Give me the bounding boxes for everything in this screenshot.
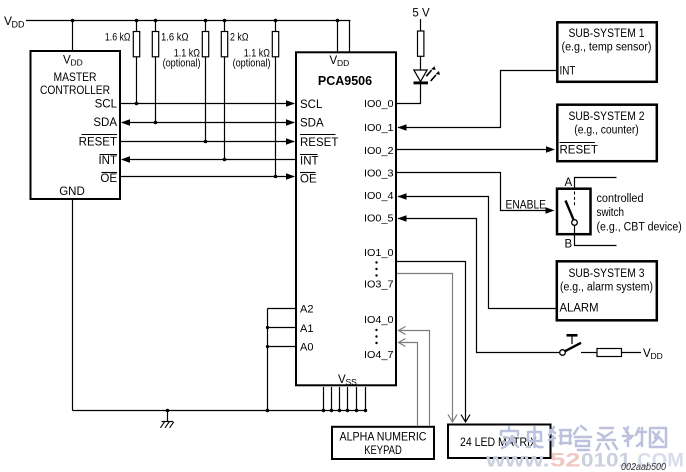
- svg-text:www.: www.: [485, 450, 550, 472]
- pin label INT with overline (master): [98, 155, 117, 167]
- sub-system 1 box: [557, 22, 657, 82]
- junction dot SCL / R1: [135, 102, 139, 106]
- arrow SDA into master: [121, 119, 130, 126]
- switch contact circle: [572, 220, 578, 226]
- junction dot A0 stub: [266, 345, 269, 348]
- wire keypad to IO4_7 (gray): [399, 343, 418, 426]
- svg-text:GND: GND: [59, 186, 85, 198]
- wire ground rail: [73, 410, 366, 412]
- svg-text:002aab500: 002aab500: [621, 462, 666, 472]
- wire IO3_7 to 24 LED matrix (gray): [397, 274, 453, 422]
- wire INT sub-system1 to IO0_1: [398, 71, 556, 128]
- svg-text:RESET: RESET: [79, 137, 117, 149]
- label SUB-SYSTEM 2: [569, 111, 645, 137]
- svg-text:SUB-SYSTEM 3: SUB-SYSTEM 3: [569, 268, 645, 280]
- wire ALARM sub-system3 to IO0_4: [398, 197, 556, 309]
- svg-text:5 V: 5 V: [412, 8, 430, 20]
- value label 1.1 kohm (optional) (OE): [233, 48, 271, 70]
- svg-text:2 kΩ: 2 kΩ: [230, 32, 249, 44]
- master controller box: [31, 51, 121, 199]
- svg-text:A: A: [565, 177, 573, 189]
- 24 LED matrix box: [448, 425, 551, 459]
- arrow open down into LED matrix (black): [461, 415, 470, 423]
- arrow open down into LED matrix (gray): [448, 415, 457, 423]
- wire A terminal: [575, 178, 617, 188]
- pin label INT with overline (PCA9506): [300, 155, 319, 168]
- svg-text:(e.g., alarm system): (e.g., alarm system): [560, 282, 653, 294]
- wire master GND down: [72, 200, 74, 411]
- label SUB-SYSTEM 3: [560, 268, 653, 294]
- svg-text:IO0_1: IO0_1: [364, 123, 394, 134]
- wire IO0_5 to momentary switch: [398, 219, 559, 353]
- pin label RESET with overline (sub-system 2): [560, 143, 598, 157]
- junction dot VDD rail / R2: [154, 19, 158, 23]
- ellipsis dots IO1..IO3: [375, 261, 377, 276]
- label ALPHA NUMERIC KEYPAD: [340, 432, 427, 458]
- resistor 2 kohm INT pull-up: [221, 21, 227, 160]
- arrow RESET into PCA9506: [286, 138, 295, 145]
- svg-text:SUB-SYSTEM 1: SUB-SYSTEM 1: [569, 28, 645, 40]
- wire SCL master to PCA9506: [121, 103, 294, 105]
- arrow open left into IO4_7 (gray): [399, 339, 406, 347]
- sub-system 2 box: [557, 105, 657, 162]
- resistor 1.6 kohm SCL pull-up: [133, 21, 139, 104]
- wire keypad to IO4_0 (gray): [399, 331, 430, 426]
- svg-text:IO3_7: IO3_7: [364, 280, 394, 291]
- junction dot VDD rail / PCA9506 VDD pin: [336, 19, 340, 23]
- svg-text:CONTROLLER: CONTROLLER: [40, 85, 110, 97]
- svg-text:SCL: SCL: [300, 99, 323, 111]
- watermark url www.520101.com: [485, 450, 684, 472]
- svg-text:A1: A1: [300, 323, 313, 335]
- resistor 1.1 kohm optional OE pull-up: [272, 21, 278, 177]
- svg-text:RESET: RESET: [560, 145, 598, 157]
- svg-text:SDA: SDA: [300, 118, 324, 130]
- junction dot OE / R5: [274, 175, 278, 179]
- label SUB-SYSTEM 1: [562, 28, 652, 54]
- arrow ENABLE into switch box: [546, 207, 555, 214]
- arrow into IO0_4: [398, 193, 407, 200]
- PCA9506 box: [296, 52, 396, 385]
- node VDD label right: [643, 348, 663, 361]
- arrow into IO0_1: [398, 124, 407, 131]
- arrow INT into master: [121, 156, 130, 163]
- wire 5V to resistor: [420, 19, 422, 31]
- wire VDD top rail: [26, 20, 351, 22]
- wire IO0_3 to ENABLE of controlled switch: [397, 173, 552, 211]
- svg-text:B: B: [565, 239, 573, 251]
- arrow OE into PCA9506: [286, 173, 295, 180]
- svg-text:IO0_0: IO0_0: [364, 99, 394, 110]
- wire OE master to PCA9506: [121, 176, 294, 178]
- svg-text:IO0_2: IO0_2: [364, 146, 394, 157]
- label MASTER CONTROLLER: [40, 72, 110, 97]
- svg-text:OE: OE: [100, 173, 117, 185]
- junction dot VDD rail / R1: [135, 19, 139, 23]
- pin label OE with overline (master): [100, 173, 117, 186]
- resistor pull-up at momentary switch: [597, 349, 622, 357]
- controlled switch box: [557, 189, 591, 235]
- svg-text:52: 52: [550, 450, 581, 472]
- pin stub A2: [268, 308, 296, 310]
- wire IO1_0 to 24 LED matrix (black): [397, 262, 466, 422]
- wire B terminal: [575, 236, 617, 246]
- svg-text:(e.g., counter): (e.g., counter): [574, 125, 639, 137]
- svg-text:IO4_0: IO4_0: [364, 315, 394, 326]
- svg-text:(e.g., CBT device): (e.g., CBT device): [597, 222, 682, 234]
- svg-text:SDA: SDA: [93, 117, 117, 129]
- label VDD pin of master controller: [63, 55, 83, 68]
- svg-text:INT: INT: [98, 155, 117, 167]
- junction dot SDA / R2: [154, 121, 158, 125]
- watermark chinese characters: [501, 426, 666, 450]
- label controlled switch (e.g., CBT device): [597, 193, 682, 234]
- momentary switch to VDD: [560, 335, 581, 355]
- wire VDD rail down to PCA9506 VDD pin 1: [337, 21, 339, 52]
- pin stub A0: [268, 346, 296, 348]
- svg-text:PCA9506: PCA9506: [318, 74, 372, 88]
- svg-text:DD: DD: [651, 351, 663, 361]
- switch lever: [566, 201, 574, 220]
- svg-text:(e.g., temp sensor): (e.g., temp sensor): [562, 42, 652, 54]
- svg-text:1.6 kΩ: 1.6 kΩ: [105, 32, 131, 44]
- value label 1.1 kohm (optional) (RESET): [163, 48, 201, 70]
- switch contact dashed control line: [574, 192, 576, 207]
- wire resistor to LED: [420, 56, 422, 70]
- svg-text:ENABLE: ENABLE: [506, 200, 547, 212]
- svg-text:SS: SS: [346, 377, 358, 387]
- junction dot A1 stub: [266, 326, 269, 329]
- junction dot address/ground: [266, 409, 270, 413]
- svg-text:IO1_0: IO1_0: [364, 248, 394, 259]
- svg-text:DD: DD: [71, 58, 83, 68]
- wire LED cathode to IO0_0: [397, 84, 421, 104]
- ground symbol: [160, 409, 173, 428]
- svg-text:DD: DD: [12, 20, 25, 30]
- svg-text:INT: INT: [560, 66, 576, 78]
- wire IO0_2 to sub-system2 RESET: [397, 149, 553, 151]
- junction dot INT / R4: [223, 158, 227, 162]
- svg-text:24 LED MATRIX: 24 LED MATRIX: [460, 437, 537, 449]
- svg-text:A2: A2: [300, 304, 313, 316]
- svg-text:(optional): (optional): [163, 58, 201, 70]
- switch contact stub to B: [574, 225, 576, 234]
- wire switch to resistor: [581, 352, 597, 354]
- node VDD top-left label: [4, 14, 25, 30]
- arrow SCL into PCA9506: [286, 100, 295, 107]
- svg-text:MASTER: MASTER: [54, 72, 97, 84]
- svg-text:ALARM: ALARM: [560, 303, 599, 315]
- alpha numeric keypad box: [332, 427, 434, 459]
- svg-text:KEYPAD: KEYPAD: [364, 445, 402, 457]
- svg-text:(optional): (optional): [233, 58, 271, 70]
- svg-text:INT: INT: [300, 156, 319, 168]
- svg-text:RESET: RESET: [300, 137, 338, 149]
- svg-text:IO0_3: IO0_3: [364, 169, 394, 180]
- wire address pins to ground: [267, 309, 269, 411]
- svg-text:IO0_5: IO0_5: [364, 214, 394, 225]
- pin label VSS: [338, 374, 357, 387]
- junction dot VDD rail / R3: [204, 19, 208, 23]
- svg-text:IO4_7: IO4_7: [364, 350, 394, 361]
- svg-text:DD: DD: [337, 58, 349, 68]
- wire SDA master to PCA9506: [122, 122, 294, 124]
- wire RESET master to PCA9506: [121, 141, 294, 143]
- junction dot VDD rail / master drop: [71, 19, 75, 23]
- junction dots VSS stubs: [322, 409, 367, 412]
- resistor 1.1 kohm optional RESET pull-up: [202, 21, 208, 142]
- svg-text:ALPHA NUMERIC: ALPHA NUMERIC: [340, 432, 427, 444]
- svg-text:switch: switch: [597, 207, 625, 219]
- resistor 1.6 kohm SDA pull-up: [152, 21, 158, 123]
- sub-system 3 box: [557, 261, 657, 320]
- svg-text:A0: A0: [300, 342, 313, 354]
- arrow SDA into PCA9506: [286, 119, 295, 126]
- pin label OE with overline (PCA9506): [300, 173, 317, 186]
- svg-text:IO0_4: IO0_4: [364, 191, 394, 202]
- arrow into IO0_5: [398, 215, 407, 222]
- wire resistor to VDD: [622, 352, 642, 354]
- junction dot RESET / R3: [204, 140, 208, 144]
- VSS pin stubs: [324, 387, 366, 411]
- arrow open left into IO4_0 (gray): [399, 327, 406, 335]
- svg-text:SCL: SCL: [95, 99, 118, 111]
- wire VDD rail down to PCA9506 VDD pin 2: [349, 21, 351, 52]
- svg-text:1.6 kΩ: 1.6 kΩ: [161, 32, 189, 44]
- label VDD pin of PCA9506: [330, 55, 350, 68]
- arrow into sub-system2 RESET: [546, 146, 555, 153]
- svg-text:controlled: controlled: [597, 193, 644, 205]
- wire VDD rail down to master controller VDD pin: [72, 21, 74, 51]
- junction dot VDD rail / R5: [274, 19, 278, 23]
- resistor LED series: [418, 31, 424, 56]
- wire INT PCA9506 to master: [122, 159, 295, 161]
- pin stub A1: [268, 327, 296, 329]
- LED D1: [414, 66, 441, 83]
- ellipsis dots IO4: [375, 329, 377, 344]
- svg-text:OE: OE: [300, 174, 317, 186]
- pin label RESET with overline (PCA9506): [300, 135, 338, 150]
- svg-text:SUB-SYSTEM 2: SUB-SYSTEM 2: [569, 111, 645, 123]
- pin label RESET with overline (master): [79, 135, 117, 149]
- junction dot VDD rail / R4: [223, 19, 227, 23]
